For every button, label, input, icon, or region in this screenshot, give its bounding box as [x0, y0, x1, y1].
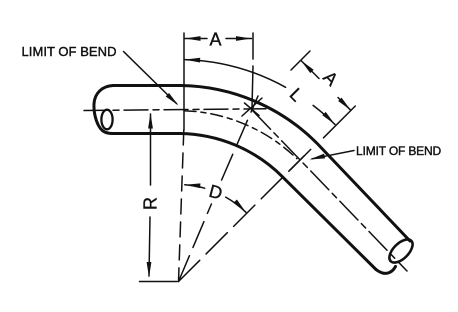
svg-text:A: A	[319, 67, 342, 90]
svg-text:A: A	[209, 30, 221, 50]
svg-text:LIMIT OF BEND: LIMIT OF BEND	[22, 44, 117, 59]
svg-text:D: D	[207, 181, 225, 204]
svg-text:LIMIT OF BEND: LIMIT OF BEND	[356, 144, 442, 158]
svg-text:L: L	[286, 84, 307, 105]
svg-text:R: R	[141, 197, 161, 210]
